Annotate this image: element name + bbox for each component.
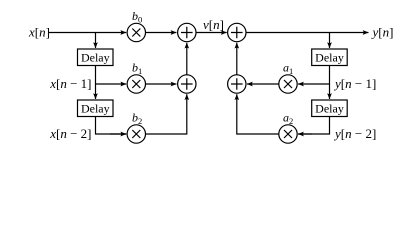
wire left Delay 2 down to x[n-2] corner (96, 117, 127, 135)
wire adder A1 to adder A2 (node v[n]) (196, 32, 227, 34)
svg-text:a1: a1 (283, 60, 293, 76)
svg-text:b2: b2 (132, 110, 142, 126)
svg-text:Delay: Delay (315, 102, 344, 116)
wire a1 to adder A4 (247, 83, 279, 85)
svg-text:y[n − 1]: y[n − 1] (333, 76, 376, 91)
wire left Delay 1 down to left Delay 2 (95, 66, 97, 100)
adder A3 (178, 75, 196, 93)
adder A2 (228, 23, 246, 41)
multiplier b2 (127, 125, 145, 143)
svg-text:x[n]: x[n] (28, 25, 50, 40)
delay block right 1 (312, 49, 348, 66)
wire x[n-1] tap to b1 (96, 83, 127, 85)
arrow y[n-2] into a2 (298, 133, 312, 135)
wire adder A2 to output y[n] (246, 32, 369, 34)
wire right Delay 2 down to y[n-2] corner (298, 117, 329, 135)
svg-text:a2: a2 (283, 110, 293, 126)
delay block right 2 (312, 100, 348, 117)
wire right Delay 1 down to right Delay 2 (329, 66, 331, 100)
wire adder A3 up to adder A1 (186, 43, 188, 75)
wire b1 to adder A3 (146, 83, 177, 85)
multiplier a1 (279, 75, 297, 93)
wire branch down to left Delay 1 (95, 33, 97, 49)
svg-text:b1: b1 (132, 60, 142, 76)
wire b0 to adder A1 (146, 32, 177, 34)
multiplier b1 (127, 75, 145, 93)
multiplier a2 (279, 125, 297, 143)
wire adder A4 up to adder A2 (236, 43, 238, 75)
svg-text:x[n − 1]: x[n − 1] (49, 76, 91, 91)
delay block left 2 (78, 100, 114, 117)
svg-text:v[n]: v[n] (203, 17, 224, 32)
multiplier b0 (127, 23, 145, 41)
svg-text:x[n − 2]: x[n − 2] (49, 126, 91, 141)
delay block left 1 (78, 49, 114, 66)
wire branch down to right Delay 1 (329, 33, 331, 49)
svg-text:y[n]: y[n] (371, 25, 394, 40)
wire x[n] to multiplier b0 (49, 32, 126, 34)
svg-text:Delay: Delay (81, 51, 110, 65)
adder A4 (228, 75, 246, 93)
svg-text:Delay: Delay (315, 51, 344, 65)
svg-text:b0: b0 (132, 9, 142, 25)
svg-text:y[n − 2]: y[n − 2] (333, 126, 376, 141)
adder A1 (178, 23, 196, 41)
arrow x[n-2] into b2 (110, 133, 126, 135)
wire b2 right and up to adder A3 (146, 94, 187, 134)
wire a2 left and up to adder A4 (237, 94, 279, 134)
wire y[n-1] tap to a1 (298, 83, 329, 85)
svg-text:Delay: Delay (81, 102, 110, 116)
